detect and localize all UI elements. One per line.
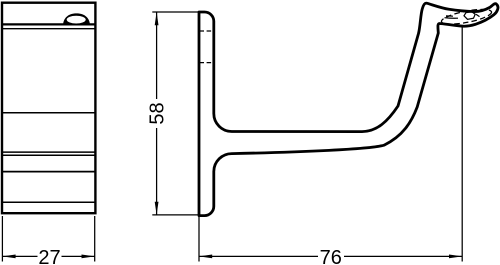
front view outline rectangle (2, 3, 95, 214)
front view arm fillet top line (2, 112, 95, 114)
dimension 76: dimension line left segment (199, 255, 318, 257)
svg-text:27: 27 (38, 247, 60, 265)
front view arm bottom edge line (2, 151, 95, 153)
dimension 27: dimension line left segment (2, 255, 37, 257)
saddle break freehand line 1 (445, 17, 459, 20)
front view saddle top edge (thick) (2, 23, 95, 25)
front view saddle lower edge (thin) (2, 28, 95, 30)
dimension 58: top arrowhead (155, 12, 159, 25)
saddle break diagonal dash (476, 14, 480, 16)
dimension 58: bottom extension line (152, 214, 199, 216)
dimension 27: left arrowhead (2, 255, 15, 259)
dimension 27: extension line right (94, 216, 96, 262)
dimension 58: dimension line lower segment (156, 128, 158, 215)
plate hidden hole dashed line upper (200, 30, 214, 32)
front view arm lower second line (2, 154, 95, 156)
dimension 27: extension line left (1, 216, 3, 262)
dimension 76: right extension line from saddle (461, 27, 463, 262)
dimension 76: right arrowhead (449, 255, 462, 259)
dimension 58: dimension line upper segment (156, 12, 158, 99)
dimension 76: left arrowhead (199, 255, 212, 259)
dimension 76: left extension line (198, 217, 200, 262)
svg-text:76: 76 (320, 247, 342, 265)
svg-text:58: 58 (147, 102, 169, 124)
dimension 27: dimension line right segment (62, 255, 95, 257)
dimension 27: right arrowhead (82, 255, 95, 259)
saddle break freehand line 2 (446, 15, 453, 17)
saddle break shard polygon (464, 12, 475, 19)
front view bottom corner radius line (2, 201, 95, 203)
side view bracket outline (199, 3, 498, 215)
dimension 76: dimension line right segment (344, 255, 462, 257)
dimension 58: bottom arrowhead (155, 202, 159, 215)
plate hidden hole dashed line lower (200, 62, 214, 64)
saddle hidden handrail dashed ellipse (440, 6, 492, 27)
dimension 58: top extension line (152, 11, 198, 13)
front view lower fillet line (2, 171, 95, 173)
front view dome (curled saddle tip seen from front) (63, 13, 90, 25)
